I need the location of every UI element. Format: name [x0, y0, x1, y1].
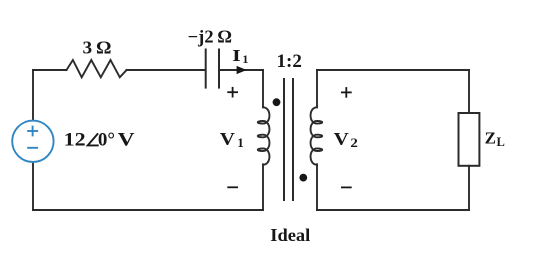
wire secondary winding to bottom	[316, 164, 318, 210]
angle symbol of source label	[88, 133, 99, 145]
transformer dot primary top	[273, 98, 281, 106]
transformer core line right	[292, 79, 294, 200]
wire right vertical above load	[468, 70, 470, 113]
wire top right loop	[317, 69, 469, 71]
svg-text:Ideal: Ideal	[270, 225, 310, 245]
wire top-left to resistor	[33, 69, 67, 71]
transformer core line left	[283, 79, 285, 200]
resistor R1 3ohm zigzag	[67, 60, 127, 77]
label plus V2	[341, 87, 352, 98]
load ZL box	[459, 113, 480, 166]
current arrow I1	[237, 66, 247, 74]
transformer dot secondary bottom	[299, 174, 307, 182]
wire bottom left loop	[33, 209, 263, 211]
wire right vertical below load	[468, 166, 470, 210]
label minus V2	[341, 186, 352, 188]
wire resistor to capacitor	[127, 69, 205, 71]
wire primary winding down to bottom	[262, 164, 264, 210]
wire corner down to primary winding	[262, 70, 264, 107]
svg-text:0°: 0°	[98, 130, 115, 151]
svg-text:1:2: 1:2	[277, 51, 302, 72]
wire secondary top corner down	[316, 70, 318, 107]
voltage source VS circle	[12, 121, 53, 162]
wire left vertical bottom segment	[32, 162, 34, 210]
label minus V1	[227, 186, 238, 188]
wire bottom right loop	[317, 209, 469, 211]
svg-text:V: V	[118, 130, 135, 151]
wire capacitor to corner	[220, 69, 263, 71]
transformer primary winding L1	[258, 107, 270, 164]
svg-text:12: 12	[64, 130, 86, 151]
voltage source plus sign	[27, 126, 38, 148]
capacitor C1 right plate	[218, 50, 220, 88]
capacitor C1 left plate	[205, 50, 207, 88]
transformer secondary winding L2	[311, 107, 323, 164]
voltage source minus sign	[27, 147, 38, 149]
svg-text:3 Ω: 3 Ω	[83, 38, 112, 58]
wire left vertical top segment	[32, 70, 34, 121]
label plus V1	[227, 87, 238, 98]
svg-text:−j2 Ω: −j2 Ω	[188, 27, 232, 47]
